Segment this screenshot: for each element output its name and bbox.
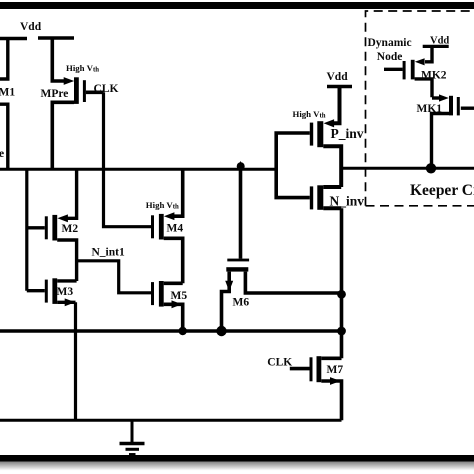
keeper circuit dashed box [366,11,474,206]
svg-text:M1: M1 [0,87,15,99]
svg-text:M3: M3 [57,286,74,298]
svg-text:High V: High V [293,109,321,119]
output wire [341,167,474,170]
Vdd T-bar (output inverter) [327,85,352,88]
transistor M5 [151,281,183,331]
svg-text:th: th [173,204,179,211]
transistor MPre [52,38,103,169]
label P_inv [331,126,364,141]
label High Vth (MPre) [66,63,99,74]
transistor MK1 [432,94,474,168]
inverter input pole [276,133,310,198]
virtual ground rail [0,329,342,332]
svg-text:N_inv: N_inv [330,193,365,208]
junction blob dynamic node / M6 gate [237,161,245,170]
wire dynamic node to M2/M3 gates [25,169,28,290]
svg-text:MPre: MPre [41,88,69,100]
wire M3 source to ground [74,302,77,420]
label e (cut node label) [0,148,4,160]
transistor M1 (cut off at left edge) [0,39,8,170]
Vdd power rail top-left [0,36,74,40]
label M1 [0,87,15,99]
label CLK (M7 gate) [267,356,292,368]
junction dot keeper output [426,163,436,173]
svg-text:High V: High V [146,200,174,210]
label MPre [41,88,69,100]
svg-text:CLK: CLK [267,356,292,368]
svg-text:High V: High V [66,63,94,73]
svg-text:M4: M4 [167,223,184,235]
label N_inv [330,193,365,208]
Vdd label top-left [20,21,42,33]
svg-text:P_inv: P_inv [331,126,364,141]
label High Vth (P_inv) [293,109,326,120]
svg-text:th: th [93,67,99,74]
svg-text:Keeper Circuit: Keeper Circuit [410,182,474,199]
label Vdd (keeper) [430,35,449,46]
label M6 [233,297,250,309]
label N_int1 [92,246,125,258]
transistor M4 [151,169,183,283]
svg-text:M7: M7 [327,364,344,376]
transistor M2 [27,169,77,281]
label Vdd (inverter) [327,71,349,83]
transistor N_inv [310,185,341,210]
svg-text:M5: M5 [171,290,188,302]
svg-text:N_int1: N_int1 [92,246,125,258]
svg-text:MK2: MK2 [421,69,447,81]
svg-text:Vdd: Vdd [430,35,449,46]
transistor M3 [27,278,77,306]
ground wire [0,419,342,422]
transistor M7 [290,356,342,420]
label M4 [167,223,184,235]
label Dynamic Node [368,37,412,63]
svg-text:th: th [320,113,326,120]
label CLK (MPre gate) [94,83,119,95]
label M3 [57,286,74,298]
transistor P_inv [310,87,341,188]
junction dot M6 source on virtual rail [216,326,226,336]
ground symbol [120,420,145,454]
junction dot M6 drain on inverter source line [337,290,346,299]
svg-text:e: e [0,148,4,160]
transistor MK2 [384,46,432,97]
svg-text:Dynamic: Dynamic [368,37,412,49]
wire N_int1 [77,261,151,293]
svg-text:MK1: MK1 [417,103,443,115]
Vdd T-bar (keeper) [423,45,449,48]
label MK1 [417,103,443,115]
label High Vth (M4) [146,200,179,211]
transistor M6 [222,167,342,331]
svg-text:Vdd: Vdd [327,71,349,83]
dynamic node rail [0,168,276,171]
label Keeper Circuit [410,182,474,199]
wire N_inv source to M7 drain [340,208,344,358]
svg-text:CLK: CLK [94,83,119,95]
label M7 [327,364,344,376]
svg-text:Vdd: Vdd [20,21,42,33]
label MK2 [421,69,447,81]
junction dot virtual rail / M7 drain [337,327,346,336]
wire CLK to M4 gate [104,92,152,226]
label M2 [62,223,79,235]
junction dot M5 source on virtual rail [179,327,187,335]
label M5 [171,290,188,302]
svg-text:M2: M2 [62,223,79,235]
svg-text:M6: M6 [233,297,250,309]
svg-text:Node: Node [377,51,403,63]
